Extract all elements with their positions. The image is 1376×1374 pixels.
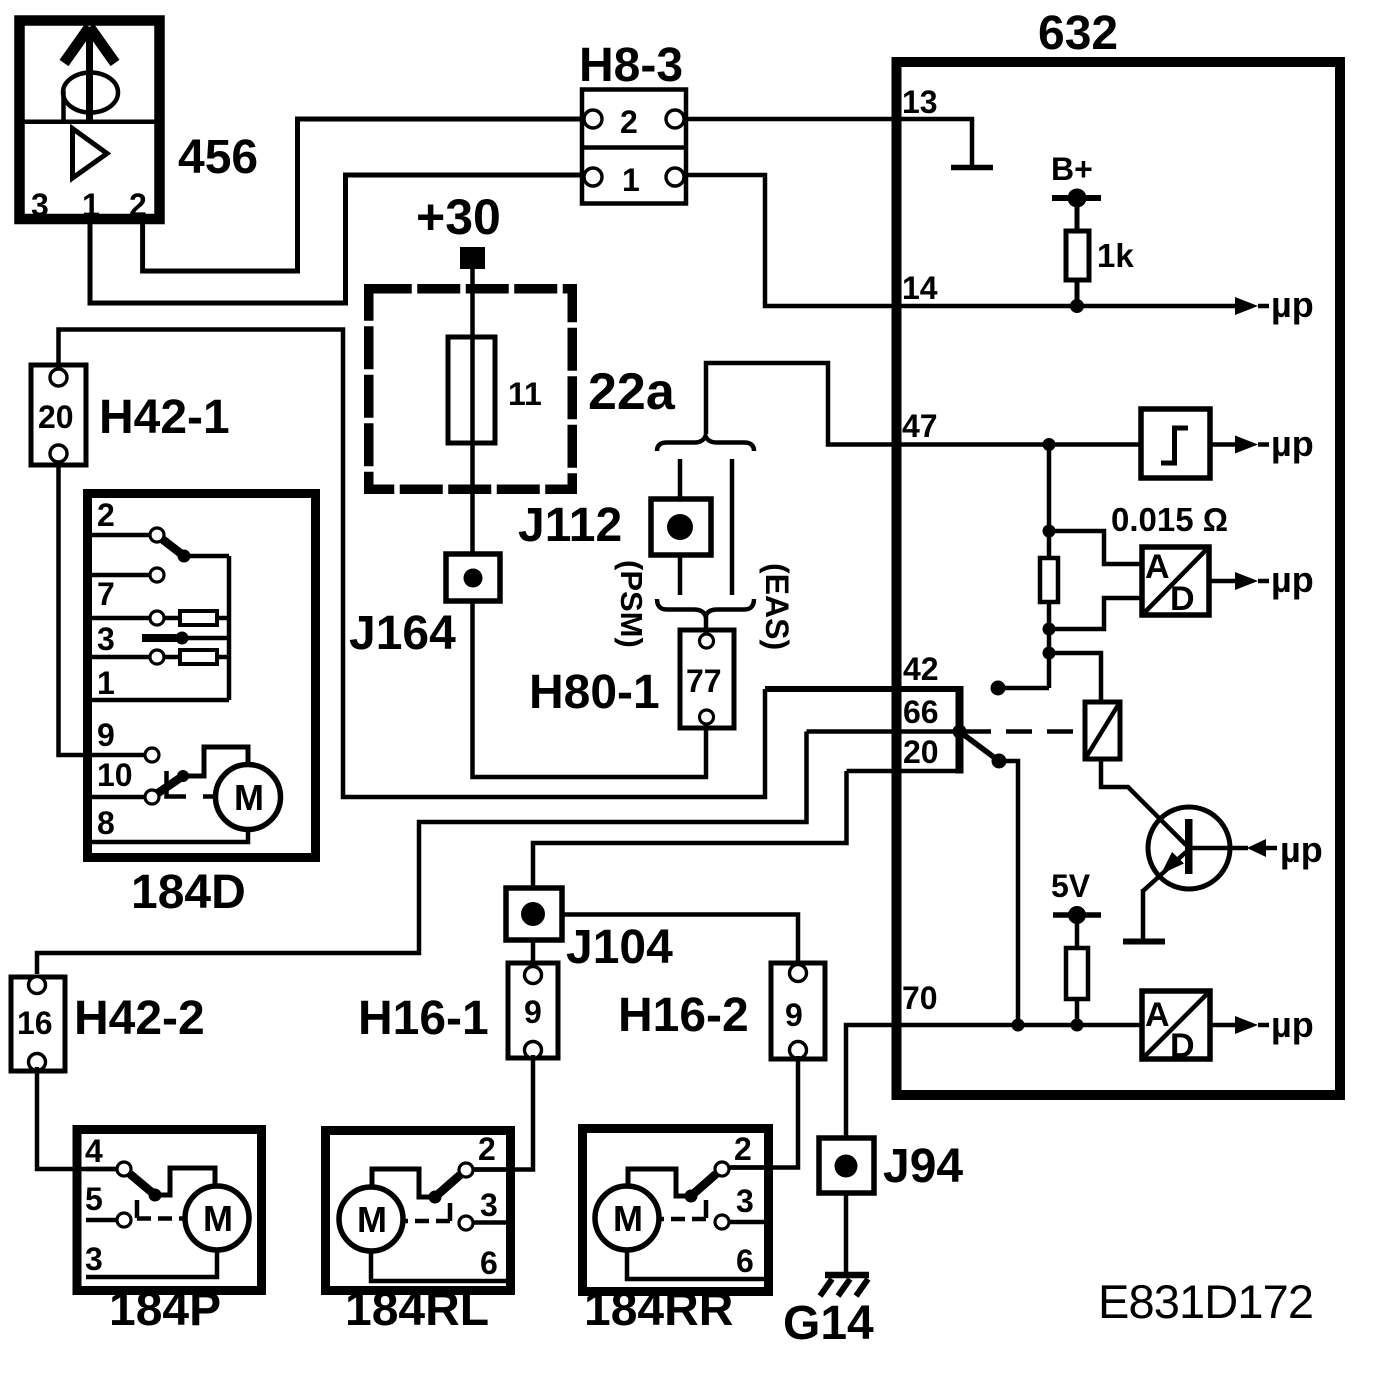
motor M bbox=[339, 1187, 403, 1251]
svg-text:(PSM): (PSM) bbox=[614, 560, 649, 648]
mechanical link bracket bbox=[704, 1200, 709, 1218]
wire 632 pin 70 bbox=[846, 1025, 1142, 1138]
supply 5V bbox=[1051, 868, 1101, 948]
svg-text:E831D172: E831D172 bbox=[1098, 1275, 1314, 1328]
motor unit 184P bbox=[77, 1130, 262, 1337]
resistor pin 3 bbox=[180, 650, 217, 664]
junction node bbox=[1071, 1019, 1084, 1032]
junction node on wire 47 bbox=[1043, 438, 1056, 451]
pin 3 stub bbox=[474, 1220, 506, 1225]
fuse box 22a dashed border bbox=[369, 289, 573, 490]
level sensor switch pivot node bbox=[953, 725, 967, 739]
svg-text:J164: J164 bbox=[349, 607, 456, 660]
connector H16-1 bbox=[358, 963, 558, 1059]
resistor pin 7 bbox=[180, 611, 217, 625]
pin 6 wire bbox=[627, 1250, 764, 1279]
svg-text:9: 9 bbox=[785, 997, 803, 1033]
wire node to solenoid valve bbox=[1049, 653, 1101, 702]
joint J104 bbox=[506, 888, 673, 974]
svg-text:3: 3 bbox=[736, 1183, 754, 1219]
svg-text:6: 6 bbox=[736, 1243, 754, 1279]
wire resistor to bus bbox=[217, 655, 229, 660]
svg-text:70: 70 bbox=[902, 980, 938, 1016]
svg-text:M: M bbox=[613, 1198, 643, 1239]
wire PSM branch upper bbox=[678, 459, 683, 499]
svg-text:7: 7 bbox=[97, 576, 115, 612]
pin 3 contact bbox=[150, 650, 164, 664]
wire valve to transistor collector bbox=[1101, 759, 1186, 845]
pin 5 contact bbox=[117, 1213, 131, 1227]
svg-text:184RR: 184RR bbox=[584, 1283, 733, 1336]
wire J94 to ground G14 bbox=[844, 1193, 849, 1274]
arrow to microprocessor (pin 47) bbox=[1210, 423, 1314, 464]
svg-text:66: 66 bbox=[903, 694, 939, 730]
wire H16-1 to 184RL pin 2 bbox=[474, 1055, 533, 1170]
motor M bbox=[185, 1186, 249, 1250]
mechanical link dash bbox=[203, 794, 214, 799]
svg-text:1: 1 bbox=[622, 162, 640, 198]
motor unit 184RR bbox=[583, 1129, 769, 1337]
wire 456 pin2 to H8-3 pin2 bbox=[143, 119, 584, 271]
wire brace to 632 pin 47 bbox=[706, 363, 1141, 445]
wire J104 to H16-1 bbox=[531, 940, 536, 967]
wire H42-2 to 184P pin 4 bbox=[37, 1067, 118, 1169]
svg-text:1: 1 bbox=[97, 665, 115, 701]
mechanical link bracket bbox=[448, 1203, 453, 1221]
svg-text:µp: µp bbox=[1280, 829, 1323, 870]
svg-text:A: A bbox=[1145, 548, 1170, 586]
pin row wire 42 inside connector block bbox=[765, 686, 960, 692]
switch and motor unit 184D bbox=[88, 494, 316, 920]
svg-text:µp: µp bbox=[1271, 1004, 1314, 1045]
svg-text:1k: 1k bbox=[1097, 237, 1134, 274]
wire shunt top to A/D bbox=[1049, 531, 1142, 564]
mechanical link bracket bbox=[167, 771, 187, 797]
pin 3 stub bbox=[730, 1220, 764, 1225]
wire H8-3 pin2 to 632 pin 13 bbox=[684, 119, 972, 166]
pin 8 wire to motor bbox=[92, 830, 248, 843]
svg-text:6: 6 bbox=[480, 1245, 498, 1281]
pin 2 stub bbox=[92, 533, 150, 538]
svg-text:J104: J104 bbox=[566, 921, 673, 974]
motor M bbox=[595, 1186, 659, 1250]
arrow to microprocessor (shunt A/D) bbox=[1209, 559, 1314, 600]
svg-text:1: 1 bbox=[82, 187, 100, 223]
ground bar inside 632 bbox=[951, 165, 993, 171]
pin 4 stub bbox=[86, 1167, 117, 1172]
junction node on wire 14 bbox=[1070, 299, 1084, 313]
solenoid valve bbox=[1085, 702, 1120, 759]
svg-text:J94: J94 bbox=[883, 1140, 963, 1193]
pin row wire 20 bbox=[847, 769, 960, 774]
mechanical link dashed bbox=[137, 1216, 185, 1221]
motor unit 184RL bbox=[326, 1131, 511, 1337]
pin 3 contact bbox=[715, 1215, 729, 1229]
wire lever to motor bbox=[372, 1169, 435, 1197]
wire lever to motor bbox=[183, 747, 248, 776]
svg-text:184RL: 184RL bbox=[345, 1283, 489, 1336]
svg-text:3: 3 bbox=[85, 1241, 103, 1277]
svg-text:H8-3: H8-3 bbox=[579, 39, 683, 92]
svg-text:22a: 22a bbox=[588, 363, 676, 421]
svg-text:G14: G14 bbox=[783, 1297, 874, 1350]
joint J94 bbox=[819, 1138, 963, 1193]
connector block right edge bbox=[956, 686, 964, 774]
svg-text:42: 42 bbox=[903, 651, 939, 687]
pin 10 contact bbox=[145, 790, 159, 804]
svg-text:20: 20 bbox=[38, 399, 74, 435]
junction node bbox=[1043, 525, 1056, 538]
svg-text:µp: µp bbox=[1271, 423, 1314, 464]
wire lever to bus bbox=[184, 554, 229, 559]
wire PSM branch lower bbox=[678, 555, 683, 595]
svg-text:H42-2: H42-2 bbox=[74, 992, 205, 1045]
pin 1 wire bbox=[92, 698, 229, 703]
pin 3 wire bbox=[86, 1250, 217, 1277]
svg-text:µp: µp bbox=[1271, 559, 1314, 600]
svg-text:2: 2 bbox=[129, 187, 147, 223]
wire H8-3 pin1 to 632 pin 14 and to microprocessor bbox=[684, 175, 1236, 306]
connector H80-1 bbox=[529, 630, 734, 728]
svg-text:47: 47 bbox=[902, 408, 938, 444]
wire upper contact to shunt node bbox=[998, 686, 1049, 691]
overbrace (alternatives split) bbox=[657, 436, 754, 451]
switch lever bbox=[435, 1175, 460, 1197]
svg-text:3: 3 bbox=[97, 621, 115, 657]
switch lever pin 2 bbox=[162, 539, 184, 556]
pin 7 stub bbox=[92, 616, 150, 621]
svg-text:77: 77 bbox=[686, 663, 722, 699]
svg-text:M: M bbox=[234, 777, 264, 818]
A/D converter U3 bbox=[1142, 991, 1210, 1065]
svg-text:5V: 5V bbox=[1051, 868, 1091, 904]
svg-text:D: D bbox=[1170, 580, 1195, 618]
lever end node bbox=[178, 550, 191, 563]
wire H42-1 to 184D pin 9 bbox=[59, 462, 146, 755]
lever end node bbox=[429, 1191, 442, 1204]
pin 10 stub bbox=[92, 795, 145, 800]
pin 4 contact bbox=[117, 1162, 131, 1176]
wire contact 7 to resistor bbox=[164, 616, 180, 621]
svg-text:µp: µp bbox=[1271, 284, 1314, 325]
pin 2 contact bbox=[715, 1162, 729, 1176]
svg-text:2: 2 bbox=[734, 1131, 752, 1167]
mechanical link dashed bbox=[660, 1217, 706, 1222]
pin 2 stub bbox=[730, 1165, 764, 1170]
svg-text:(EAS): (EAS) bbox=[759, 563, 795, 650]
shunt resistor 0.015 ohm bbox=[1040, 558, 1058, 602]
svg-text:14: 14 bbox=[902, 270, 938, 306]
svg-text:M: M bbox=[357, 1199, 387, 1240]
schmitt trigger U1 bbox=[1141, 409, 1210, 478]
wire shunt bottom to A/D bbox=[1049, 598, 1142, 629]
wire 47 node down to shunt bbox=[1047, 445, 1052, 559]
switch upper contact node bbox=[991, 681, 1006, 696]
arrow from microprocessor to transistor base bbox=[1247, 829, 1323, 870]
ECU box 632 bbox=[897, 7, 1341, 1095]
junction node bbox=[1012, 1019, 1025, 1032]
switch lower contact node bbox=[992, 754, 1007, 769]
svg-text:J112: J112 bbox=[518, 499, 622, 552]
svg-text:+30: +30 bbox=[416, 189, 501, 245]
pin 9 contact bbox=[145, 748, 159, 762]
arrow to microprocessor (pin 14) bbox=[1235, 284, 1314, 325]
wire wiper to bus bbox=[182, 636, 229, 641]
svg-text:A: A bbox=[1145, 996, 1170, 1034]
svg-text:11: 11 bbox=[508, 376, 542, 412]
mechanical link dashed to valve bbox=[965, 729, 1085, 734]
wire lever to motor bbox=[628, 1169, 691, 1196]
svg-text:20: 20 bbox=[903, 734, 939, 770]
svg-text:9: 9 bbox=[97, 717, 115, 753]
svg-text:16: 16 bbox=[17, 1005, 53, 1041]
svg-text:4: 4 bbox=[85, 1133, 103, 1169]
mechanical link bracket bbox=[135, 1200, 140, 1218]
wire J164 to H80-1 pin 77 bbox=[473, 601, 707, 777]
pin row wire 66 bbox=[807, 729, 960, 734]
wire H80-1 top pin to underbrace bbox=[704, 615, 709, 634]
switch unit 456 bbox=[20, 21, 259, 224]
connector H42-1 bbox=[31, 365, 230, 465]
switch lever pin 10 bbox=[158, 776, 183, 793]
joint J112 bbox=[518, 499, 711, 555]
svg-text:B+: B+ bbox=[1051, 151, 1093, 187]
wiper node bbox=[176, 632, 189, 645]
level sensor switch lever bbox=[960, 732, 1000, 762]
pin 6 wire bbox=[371, 1251, 506, 1281]
svg-text:184P: 184P bbox=[109, 1283, 221, 1336]
ground bar at transistor emitter bbox=[1123, 939, 1165, 945]
pin 3 stub bbox=[92, 655, 150, 660]
connector H8-3 bbox=[579, 39, 686, 204]
switch lever bbox=[691, 1174, 716, 1196]
pin 7 contact bbox=[150, 611, 164, 625]
open contact bbox=[150, 568, 164, 582]
svg-text:H16-1: H16-1 bbox=[358, 992, 489, 1045]
connector H16-2 bbox=[618, 963, 825, 1059]
svg-text:2: 2 bbox=[620, 104, 638, 140]
connector H42-2 bbox=[11, 977, 205, 1072]
pull-up resistor at 5V bbox=[1066, 948, 1088, 1025]
motor M bbox=[216, 765, 281, 830]
svg-text:13: 13 bbox=[902, 84, 938, 120]
pin 2 contact bbox=[150, 528, 164, 542]
mechanical link dashed bbox=[403, 1219, 450, 1224]
svg-text:9: 9 bbox=[524, 994, 542, 1030]
bus wire bbox=[227, 556, 232, 700]
svg-text:3: 3 bbox=[31, 187, 49, 223]
svg-text:M: M bbox=[203, 1198, 233, 1239]
wire H16-2 to 184RR pin 2 bbox=[730, 1056, 798, 1168]
wire EAS branch bbox=[730, 459, 735, 595]
svg-text:632: 632 bbox=[1038, 7, 1118, 60]
wire lower contact to pin 70 line bbox=[999, 761, 1018, 1025]
svg-text:184D: 184D bbox=[131, 866, 246, 919]
resistor 1k bbox=[1066, 231, 1134, 306]
pin 5 stub bbox=[86, 1218, 117, 1223]
fuse 11 bbox=[448, 337, 542, 443]
junction node bbox=[1043, 647, 1056, 660]
svg-text:2: 2 bbox=[97, 497, 115, 533]
arrow to microprocessor (pin 70) bbox=[1210, 1004, 1314, 1045]
pin 2 stub bbox=[474, 1167, 506, 1172]
open contact stub bbox=[92, 573, 150, 578]
wiper lever bbox=[142, 634, 178, 642]
svg-text:5: 5 bbox=[85, 1181, 103, 1217]
wire J104 to 632 pin 20 bbox=[533, 771, 847, 888]
svg-text:0.015 Ω: 0.015 Ω bbox=[1111, 501, 1228, 538]
wire contact 3 to resistor bbox=[164, 655, 180, 660]
switch lever bbox=[130, 1174, 155, 1195]
wire 456 pin1 to H8-3 pin1 bbox=[90, 175, 584, 303]
svg-text:3: 3 bbox=[480, 1187, 498, 1223]
supply +30 bbox=[416, 189, 501, 339]
pin 2 contact bbox=[459, 1163, 473, 1177]
pin 3 contact bbox=[459, 1216, 473, 1230]
ground G14 bbox=[783, 1275, 874, 1350]
svg-text:H42-1: H42-1 bbox=[99, 391, 230, 444]
svg-text:2: 2 bbox=[478, 1131, 496, 1167]
wire J104 to H16-2 bbox=[562, 915, 798, 966]
wire lever to motor bbox=[155, 1168, 215, 1195]
svg-text:10: 10 bbox=[97, 757, 133, 793]
junction node bbox=[1043, 623, 1056, 636]
joint J164 bbox=[349, 554, 500, 660]
lever end node bbox=[149, 1189, 162, 1202]
supply B+ bbox=[1051, 151, 1101, 231]
A/D converter U2 bbox=[1142, 547, 1209, 618]
svg-text:H16-2: H16-2 bbox=[618, 989, 749, 1042]
wire H42-1 pin 20 to 632 pin 42 bbox=[59, 330, 766, 798]
svg-text:8: 8 bbox=[97, 805, 115, 841]
svg-text:H80-1: H80-1 bbox=[529, 666, 660, 719]
transistor Q1 bbox=[1143, 807, 1248, 939]
wire resistor to bus bbox=[217, 616, 229, 621]
wire H42-2 pin 16 to 632 pin 66 bbox=[37, 732, 807, 975]
lever end node bbox=[177, 770, 189, 782]
svg-text:456: 456 bbox=[178, 131, 258, 184]
underbrace (alternatives merge) bbox=[657, 599, 754, 616]
lever end node bbox=[685, 1190, 698, 1203]
svg-text:D: D bbox=[1170, 1027, 1195, 1065]
wire fuse to J164 bbox=[470, 443, 475, 554]
wire below shunt bbox=[1047, 602, 1052, 688]
